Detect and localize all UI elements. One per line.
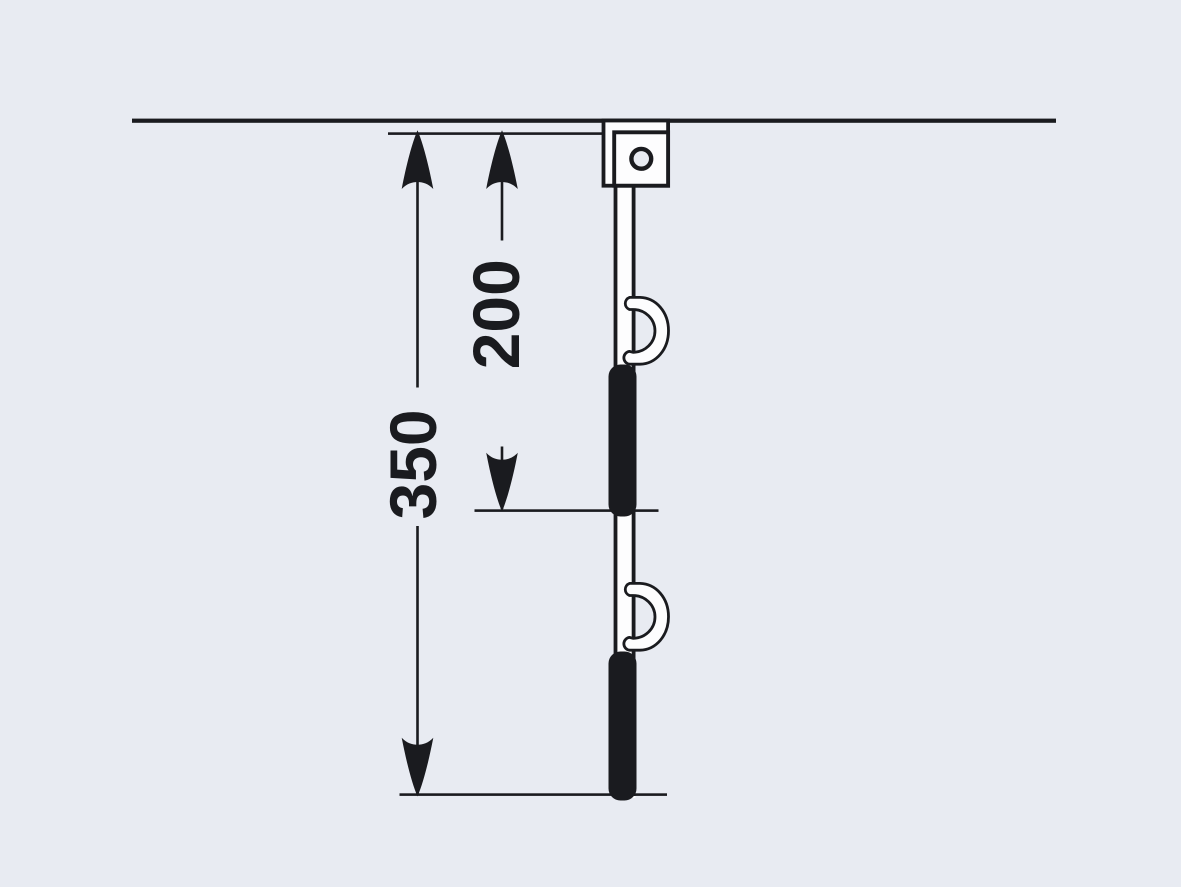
hook ring 1: [624, 297, 669, 364]
ceiling line: [132, 119, 1056, 123]
hook ring 2: [624, 583, 669, 650]
arrowhead up 350: [402, 130, 434, 189]
rod (tube with black side walls): [614, 186, 636, 798]
arrowhead up 200: [486, 130, 518, 189]
svg-text:350: 350: [376, 409, 450, 519]
dimension line 200 upper segment: [501, 134, 504, 241]
dimension line 350 upper segment: [416, 134, 419, 388]
mounting bracket plate: [604, 121, 669, 186]
arrowhead down 200: [486, 453, 518, 512]
grip sleeve 2: [609, 652, 637, 801]
dimension line 200 lower segment: [501, 447, 504, 510]
bracket inner plate line: [614, 132, 668, 185]
bottom tick line (end of 350 dimension): [400, 793, 668, 796]
grip sleeve 1: [609, 365, 637, 517]
dimension line 350 lower segment: [416, 526, 419, 794]
arrowhead down 350: [402, 738, 434, 797]
bracket hole: [631, 149, 651, 169]
middle tick line (end of 200 dimension): [475, 509, 659, 512]
extension line at top of dimension: [388, 132, 612, 135]
svg-text:200: 200: [459, 259, 533, 369]
